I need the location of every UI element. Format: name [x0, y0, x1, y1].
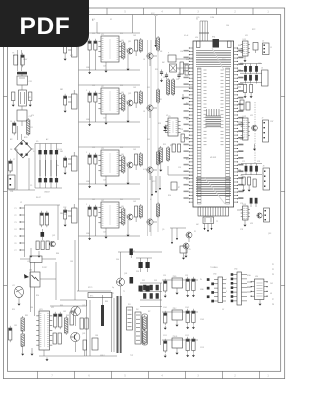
op-amp U1	[98, 34, 121, 62]
capacitor C13	[135, 40, 138, 56]
svg-text:P2: P2	[272, 269, 274, 271]
svg-text:R89: R89	[60, 305, 63, 307]
svg-text:C55: C55	[178, 167, 181, 169]
svg-text:D23: D23	[154, 280, 157, 282]
svg-text:D11: D11	[147, 87, 150, 89]
pwm controller U21	[36, 309, 52, 350]
capacitor C112	[186, 337, 189, 357]
labels CH4	[103, 206, 125, 234]
svg-text:R43: R43	[120, 199, 123, 201]
ground J2 block	[30, 248, 41, 258]
capacitor C53	[181, 134, 184, 142]
resistor R12	[122, 41, 128, 60]
svg-text:104: 104	[103, 232, 106, 234]
resistor R23	[139, 90, 142, 105]
ground CH4 caps	[88, 218, 95, 240]
wire rails CH2	[79, 85, 141, 122]
svg-text:5: 5	[226, 291, 227, 293]
svg-text:J8: J8	[263, 166, 265, 168]
resistor R1	[27, 118, 33, 136]
svg-text:P7: P7	[272, 299, 274, 301]
op-amp U5	[165, 116, 180, 136]
capacitor C113	[192, 337, 195, 357]
wire channel4 to PSU	[75, 240, 79, 300]
ground U12	[253, 144, 256, 151]
svg-text:C64: C64	[258, 63, 261, 65]
svg-text:L21: L21	[12, 285, 15, 287]
svg-text:RP2: RP2	[252, 29, 255, 31]
regulator 7812	[172, 308, 183, 327]
transistor Q12	[252, 125, 258, 131]
capacitor CY2	[29, 92, 32, 107]
resistor R33	[139, 152, 142, 167]
mosfet Q22	[71, 306, 81, 326]
capacitor C35	[160, 70, 163, 83]
svg-text:U5: U5	[166, 115, 168, 117]
svg-text:U21: U21	[51, 307, 54, 309]
svg-text:103: 103	[133, 149, 136, 151]
svg-text:CN2: CN2	[63, 207, 66, 209]
wire DC bus	[9, 149, 36, 190]
svg-text:FB2: FB2	[60, 89, 63, 91]
capacitor C15	[64, 42, 67, 61]
svg-text:104: 104	[103, 66, 106, 68]
svg-text:R90: R90	[36, 295, 39, 297]
diode bank D20-D25	[140, 283, 162, 307]
wire channel control bus	[148, 40, 159, 236]
connector J5	[262, 41, 269, 55]
optocoupler U20	[24, 270, 40, 288]
capacitor C25	[64, 94, 67, 113]
svg-text:R13: R13	[120, 33, 123, 35]
svg-text:Q21: Q21	[52, 235, 55, 237]
wire AC input	[13, 50, 28, 71]
connector J6	[261, 68, 268, 87]
wire 7812 rail	[162, 311, 198, 313]
diode D21	[41, 229, 45, 240]
svg-text:J6: J6	[261, 68, 263, 70]
wire dashed net	[254, 102, 256, 163]
svg-text:R4-R7: R4-R7	[36, 197, 41, 199]
resistor R82	[21, 332, 24, 348]
svg-text:P6: P6	[15, 243, 17, 245]
svg-text:C112: C112	[185, 335, 189, 337]
svg-text:U10: U10	[195, 37, 198, 39]
capacitor C87	[118, 249, 162, 259]
svg-text:R86: R86	[56, 253, 59, 255]
svg-text:R91: R91	[12, 309, 15, 311]
svg-text:X1: X1	[194, 231, 196, 233]
svg-text:Q24: Q24	[124, 273, 127, 275]
svg-text:08: 08	[270, 293, 272, 295]
svg-text:R83: R83	[66, 315, 69, 317]
capacitor CX2	[17, 106, 32, 126]
ground CH1	[105, 54, 130, 73]
wire sense lines	[151, 176, 161, 196]
capacitor CX1	[17, 76, 32, 90]
capacitor C43	[135, 206, 138, 222]
transistor Q21	[50, 241, 56, 247]
svg-text:472: 472	[70, 55, 73, 57]
svg-text:NTC1: NTC1	[88, 287, 92, 289]
svg-text:CN1: CN1	[10, 191, 13, 193]
svg-text:C113: C113	[200, 347, 204, 349]
svg-text:R60: R60	[238, 45, 241, 47]
svg-text:C71: C71	[242, 161, 245, 163]
svg-text:79L05: 79L05	[173, 336, 178, 338]
regulator 7805	[172, 276, 183, 295]
svg-text:C101: C101	[163, 307, 167, 309]
eeprom U30	[251, 276, 268, 306]
svg-text:FB3: FB3	[60, 151, 63, 153]
svg-text:CN4: CN4	[234, 269, 237, 271]
resistor R44	[157, 202, 160, 218]
svg-text:F: F	[168, 53, 169, 55]
inductor L1	[17, 72, 27, 76]
resistor R51	[159, 146, 162, 164]
capacitor C22	[94, 91, 97, 104]
wire CN4 to U30	[247, 282, 251, 292]
resistor network RN1	[212, 37, 219, 48]
svg-text:AC1: AC1	[92, 18, 95, 21]
resistor R84	[70, 312, 74, 325]
connector J7	[262, 118, 269, 143]
svg-text:C103: C103	[200, 319, 204, 321]
svg-text:R85: R85	[105, 301, 108, 303]
microcontroller U10	[184, 41, 244, 207]
svg-text:D21: D21	[142, 280, 145, 282]
svg-text:RN1: RN1	[212, 37, 215, 39]
capacitor bank C71-C73	[241, 164, 262, 176]
transistor Q31	[127, 162, 133, 168]
capacitor C21	[40, 211, 43, 227]
mosfet Q23	[71, 332, 80, 352]
filter FB4	[68, 204, 77, 223]
ground U11	[244, 56, 247, 62]
svg-text:C111: C111	[163, 335, 167, 337]
inductor LF1 common-mode choke	[19, 90, 32, 106]
capacitor C12	[94, 39, 97, 52]
svg-text:T1: T1	[112, 293, 114, 295]
svg-text:C82: C82	[63, 311, 66, 313]
regulator 79L05	[172, 336, 183, 355]
wire secondary rail	[160, 283, 162, 345]
svg-text:FB4: FB4	[60, 213, 63, 215]
svg-text:4x: 4x	[57, 165, 59, 167]
wire rails CH3	[79, 147, 141, 184]
svg-text:R54: R54	[168, 195, 171, 197]
wire to bridge	[18, 126, 22, 140]
connector CN3	[207, 266, 226, 303]
transformer T1 core	[112, 293, 122, 353]
svg-text:103: 103	[133, 201, 136, 203]
capacitor CY1	[12, 92, 15, 107]
bridge rectifier BR1	[15, 137, 32, 158]
svg-text:U30: U30	[255, 276, 258, 278]
capacitor C11	[86, 38, 91, 52]
ground CH2	[105, 106, 130, 125]
svg-text:P3: P3	[15, 222, 17, 224]
capacitor C88	[130, 277, 134, 284]
resistor R83	[65, 316, 68, 335]
svg-text:Vp: Vp	[112, 287, 114, 289]
capacitor C82	[54, 312, 57, 329]
wire PSU ground bus	[39, 356, 117, 361]
transformer T1 primary winding	[127, 307, 133, 330]
svg-text:F2: F2	[110, 19, 112, 21]
connector CN4	[231, 269, 247, 306]
svg-text:103: 103	[133, 35, 136, 37]
svg-text:P0.5: P0.5	[186, 119, 190, 121]
wire 7805 rail	[162, 279, 198, 281]
diode D26 D27	[136, 258, 152, 272]
wire opto net	[35, 262, 57, 300]
svg-text:C102: C102	[185, 307, 189, 309]
svg-text:Q23: Q23	[82, 333, 85, 335]
transformer T1 secondary winding	[135, 312, 141, 344]
crystal Y1	[170, 64, 180, 72]
transistor Q11	[127, 48, 133, 54]
svg-text:W1: W1	[128, 304, 131, 306]
resistor R85 snubber	[101, 295, 104, 326]
svg-text:C76: C76	[240, 203, 243, 205]
svg-text:L20: L20	[27, 261, 30, 263]
svg-text:D12: D12	[147, 139, 150, 141]
wire U10 to right bank	[237, 49, 243, 210]
svg-text:COM: COM	[210, 17, 215, 19]
svg-text:P3: P3	[272, 274, 274, 276]
svg-text:Q22: Q22	[82, 305, 85, 307]
connector J2	[15, 202, 25, 257]
ground CH3 caps	[88, 166, 95, 188]
svg-text:C78: C78	[240, 229, 243, 231]
transistor Q13	[257, 213, 262, 218]
fuse F1	[13, 53, 18, 66]
svg-text:C81: C81	[14, 325, 17, 327]
svg-text:Y2: Y2	[216, 221, 218, 223]
resistor R61 R62	[240, 98, 250, 111]
svg-text:J7: J7	[262, 118, 264, 120]
diode D5	[164, 125, 167, 133]
resistor R24	[157, 88, 160, 104]
svg-text:R63: R63	[240, 111, 243, 113]
svg-text:C22: C22	[92, 85, 95, 87]
wire U10 bottom out	[203, 224, 212, 233]
capacitor C92	[186, 277, 189, 297]
label diode array	[36, 141, 50, 194]
svg-text:RT: RT	[178, 187, 180, 189]
svg-text:U13: U13	[250, 223, 253, 225]
op-amp U2	[98, 86, 121, 114]
svg-text:C32: C32	[176, 79, 179, 81]
resistor R31	[167, 78, 170, 96]
svg-text:R52: R52	[170, 145, 173, 147]
capacitor C5	[9, 159, 13, 173]
svg-text:J5: J5	[262, 41, 264, 43]
svg-text:7805: 7805	[173, 276, 177, 278]
resistor R22	[122, 93, 128, 112]
wire U10 top feed	[184, 19, 209, 42]
capacitor C31	[86, 152, 91, 166]
capacitor C93	[192, 277, 195, 297]
resistor R14	[157, 36, 160, 52]
filter FB3	[68, 152, 77, 171]
svg-text:C12: C12	[92, 33, 95, 35]
svg-text:R24: R24	[63, 214, 66, 216]
svg-text:D30: D30	[116, 259, 119, 261]
svg-text:t1: t1	[150, 198, 151, 201]
capacitor C35	[64, 156, 67, 175]
svg-text:1: 1	[226, 279, 227, 281]
thermistor NTC1	[77, 291, 112, 298]
capacitor C23	[135, 92, 138, 108]
resistor R13	[139, 38, 142, 53]
svg-text:CX1: CX1	[29, 81, 33, 83]
svg-text:104: 104	[103, 180, 106, 182]
svg-text:C80: C80	[30, 307, 33, 309]
wire PSU mid	[60, 300, 87, 356]
capacitor C86	[92, 338, 98, 350]
labels CH2	[103, 92, 125, 120]
svg-text:R81: R81	[25, 315, 28, 317]
capacitor C22	[45, 211, 48, 227]
svg-text:R51: R51	[163, 144, 166, 146]
svg-text:R33: R33	[120, 147, 123, 149]
svg-text:C13: C13	[97, 33, 100, 35]
svg-text:GND1: GND1	[100, 355, 105, 357]
svg-text:R53: R53	[158, 123, 161, 125]
transistor Q5	[186, 232, 192, 242]
svg-text:U8: U8	[160, 51, 162, 53]
resistor R43	[139, 204, 142, 219]
wire PSU feed	[31, 262, 35, 316]
resistor R42	[122, 207, 128, 226]
svg-text:C87: C87	[132, 251, 135, 253]
svg-text:Q21: Q21	[128, 93, 131, 95]
svg-text:D8: D8	[10, 149, 12, 151]
svg-text:P1: P1	[15, 208, 17, 210]
svg-text:CN3: CN3	[213, 274, 216, 276]
svg-text:D26: D26	[136, 271, 139, 273]
svg-text:7812: 7812	[173, 308, 177, 310]
resistor R32	[122, 155, 128, 174]
resistor R21 R22 R23	[36, 241, 49, 250]
capacitor C41	[86, 204, 91, 218]
capacitor C61	[253, 43, 258, 54]
capacitor C74 C75	[242, 177, 256, 192]
ground CH1 caps	[88, 52, 95, 74]
capacitor C21	[86, 90, 91, 104]
svg-text:Y1: Y1	[178, 69, 180, 71]
capacitor C33	[135, 154, 138, 170]
wire 79L05 rail	[162, 339, 198, 341]
resistor R87 R88	[50, 300, 90, 356]
capacitor C81	[9, 326, 12, 342]
transistor Q12	[147, 53, 157, 66]
capacitor C101	[164, 311, 167, 330]
capacitor C51 C52	[172, 144, 181, 152]
resistor R32	[172, 78, 175, 96]
wire rails CH1	[79, 33, 141, 70]
wire rails CH4	[79, 199, 141, 236]
svg-text:KEY-IN: KEY-IN	[63, 211, 69, 213]
svg-text:P0.1: P0.1	[186, 103, 190, 105]
svg-text:Q5: Q5	[162, 229, 164, 231]
label CN2	[63, 207, 69, 213]
svg-text:R23: R23	[120, 85, 123, 87]
transistor Q22	[147, 105, 157, 118]
capacitor C31 C32	[165, 73, 181, 79]
svg-text:T1: T1	[123, 291, 125, 293]
svg-text:Q13: Q13	[268, 233, 271, 235]
resistor R52	[167, 146, 170, 162]
wire J2 top	[25, 205, 61, 240]
ic U11	[241, 39, 250, 56]
svg-text:P8: P8	[272, 304, 274, 306]
connector J8	[263, 166, 270, 191]
svg-text:SCL: SCL	[247, 287, 250, 289]
capacitor C111	[164, 339, 167, 358]
svg-text:R1: R1	[31, 127, 33, 129]
diode array D1-D4	[35, 144, 62, 189]
ground PSU left	[21, 348, 44, 356]
svg-text:104: 104	[103, 118, 106, 120]
svg-text:P1: P1	[272, 264, 274, 266]
svg-text:CN7: CN7	[270, 121, 273, 123]
svg-text:J1: J1	[8, 173, 10, 175]
svg-text:C89: C89	[70, 261, 73, 263]
resistor pack RP1	[142, 314, 148, 345]
resistor R34	[157, 150, 160, 166]
svg-text:C53: C53	[180, 129, 183, 131]
capacitor C4	[13, 121, 16, 135]
svg-text:103: 103	[133, 87, 136, 89]
svg-text:P5: P5	[15, 236, 17, 238]
svg-text:C92: C92	[185, 275, 188, 277]
ground CH2 caps	[88, 104, 95, 126]
ground CH4	[105, 220, 130, 239]
capacitor bank C62-C67	[240, 64, 262, 84]
svg-text:J5: J5	[270, 47, 272, 49]
resistor R81	[21, 316, 24, 333]
capacitor C91	[164, 279, 167, 298]
wire driver lines	[170, 228, 186, 244]
capacitor C0	[21, 53, 24, 67]
diode D28 D29	[139, 286, 150, 292]
svg-text:C42: C42	[92, 199, 95, 201]
filter FB1	[68, 38, 77, 57]
op-amp U3	[98, 148, 121, 176]
svg-text:C32: C32	[92, 147, 95, 149]
svg-text:F1: F1	[13, 53, 15, 55]
svg-text:W2: W2	[136, 309, 139, 311]
svg-text:C86: C86	[95, 335, 98, 337]
capacitor C84 C85	[53, 333, 61, 344]
transistor Q42	[147, 219, 157, 232]
wire to U10	[175, 59, 193, 100]
svg-text:C7: C7	[13, 159, 15, 161]
thermistor RT1	[168, 166, 193, 190]
transistor Q32	[147, 167, 157, 180]
capacitor C83	[59, 312, 62, 329]
svg-text:R34: R34	[186, 59, 189, 61]
svg-text:P4: P4	[15, 229, 17, 231]
wire left channel bus	[78, 30, 80, 245]
op-amp U4	[98, 200, 121, 228]
svg-text:BR1: BR1	[24, 137, 28, 139]
svg-text:P1.2: P1.2	[186, 139, 190, 141]
svg-text:0.1uF: 0.1uF	[184, 35, 188, 37]
